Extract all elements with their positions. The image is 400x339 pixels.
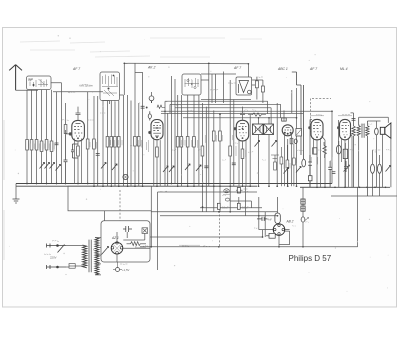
trimmer arrow P6 bbox=[112, 164, 117, 170]
wire V6 pin drops bbox=[342, 138, 349, 188]
resistor R21 bbox=[193, 137, 196, 148]
small oval between bbox=[225, 198, 229, 201]
resistor box R34 bbox=[308, 176, 312, 181]
resistor R24 bbox=[201, 146, 204, 156]
wire nest risers bbox=[102, 63, 280, 186]
wire right heater run bbox=[331, 195, 397, 197]
power transformer TR1 secondary bbox=[95, 238, 99, 275]
trimmer arrow P5 bbox=[101, 163, 106, 169]
wire detector output pair bbox=[292, 72, 304, 159]
wire dashed dial feed bbox=[219, 211, 221, 247]
label 145 ohm bbox=[135, 247, 146, 249]
wire speaker leads bbox=[383, 134, 391, 187]
trimmer arrow P8 bbox=[169, 166, 174, 172]
dial cord dashed bbox=[119, 190, 121, 221]
svg-text:AZ 1: AZ 1 bbox=[111, 236, 119, 240]
tube V7 AZ1 (rectifier, socket view) bbox=[111, 242, 123, 255]
wire V4 nets bbox=[284, 88, 297, 186]
OT core bbox=[362, 124, 364, 138]
trimmer arrow P7 bbox=[163, 166, 168, 172]
electrolytic capsule bbox=[275, 213, 280, 224]
capacitor C19 bbox=[308, 155, 312, 187]
trimmer arrow P13 bbox=[284, 168, 289, 174]
wire V1 top cap bbox=[76, 107, 81, 120]
trimmer arrow P3 bbox=[50, 163, 55, 169]
wire L2 feeders right bbox=[120, 95, 128, 186]
capacitor C10 bbox=[328, 161, 332, 187]
svg-text:AK 2: AK 2 bbox=[147, 66, 155, 70]
value labels column 1 (rotated squiggles) bbox=[29, 141, 54, 150]
coil L2 inner parts bbox=[102, 75, 118, 97]
band filter box L3 bbox=[182, 74, 201, 95]
fuse F1 bbox=[69, 264, 75, 269]
junction dots bbox=[26, 183, 28, 185]
resistor capsule R32 bbox=[302, 159, 306, 167]
trimmer arrow P10 bbox=[196, 165, 201, 171]
choke L6 bbox=[142, 228, 148, 234]
output transformer OT primary coil bbox=[357, 117, 360, 187]
wire mid distribution bus nest bbox=[161, 100, 332, 118]
dial lamp bbox=[123, 174, 128, 179]
dial assembly box bbox=[68, 186, 151, 211]
resistor R12 bbox=[110, 137, 113, 148]
wire screen feeders right of V1 bbox=[88, 92, 98, 186]
volume pot box bbox=[296, 129, 302, 137]
capacitor C2 bbox=[64, 135, 68, 184]
value labels V3 bbox=[236, 146, 246, 157]
resistor R28 bbox=[261, 86, 264, 92]
grid resistor rect R38 bbox=[343, 149, 347, 158]
resistor R16 bbox=[137, 137, 140, 147]
trimmer arrow P12 bbox=[272, 141, 277, 147]
grid dot V1 bbox=[69, 133, 72, 136]
lamp symbol bbox=[301, 217, 305, 222]
wire trimmer stems bbox=[150, 101, 152, 121]
zigzag resistor R37 (145 ohm) bbox=[127, 242, 147, 246]
value label marks (illegible scan text) bbox=[29, 144, 31, 150]
wire bus link right bbox=[300, 110, 332, 187]
selector arrow bbox=[102, 247, 109, 255]
arrow on lamp bbox=[305, 218, 309, 221]
transformer core bbox=[89, 240, 91, 273]
svg-text:BgF: BgF bbox=[28, 78, 33, 82]
resistor R3 bbox=[35, 140, 38, 151]
capacitor C13 (filter) bbox=[123, 226, 132, 232]
wire ground lead bbox=[15, 184, 17, 200]
tone cap + arrow bbox=[344, 161, 350, 172]
resistor R23 bbox=[219, 131, 222, 141]
wire R38 stems bbox=[344, 143, 346, 187]
trimmer arrow P15 bbox=[386, 166, 391, 172]
wire antenna lead bbox=[16, 89, 38, 91]
resistor R10 bbox=[93, 139, 96, 149]
wire osc verticals bbox=[203, 80, 234, 186]
grid dot V3 bbox=[234, 128, 236, 130]
resistor box R33 bbox=[313, 148, 317, 154]
svg-text:4nF: 4nF bbox=[268, 217, 273, 221]
wire heater run left bbox=[157, 211, 159, 270]
capacitor C7 bbox=[232, 163, 236, 165]
pilot lamp bbox=[223, 189, 230, 195]
svg-text:ABC 1: ABC 1 bbox=[277, 67, 288, 71]
wire top HT bus bbox=[124, 63, 248, 103]
capacitor C1 bbox=[55, 143, 59, 145]
wire V1 cathode tail bbox=[77, 141, 79, 184]
wire V3 top cap bbox=[240, 107, 245, 120]
wire V8 nets bbox=[278, 197, 290, 247]
wire V1 grid stub bbox=[66, 130, 71, 134]
svg-text:0,1uF: 0,1uF bbox=[242, 206, 249, 210]
svg-text:AB 2: AB 2 bbox=[286, 220, 294, 224]
wire verticals under L2 bbox=[103, 101, 119, 187]
resistor R4 bbox=[40, 141, 43, 152]
value labels column 3 bbox=[136, 138, 195, 145]
speaker bbox=[380, 123, 391, 138]
detector parts cluster bbox=[271, 144, 295, 186]
tube V5 AF7 (AF amp) bbox=[311, 119, 323, 139]
wire mains pigtails bbox=[47, 244, 51, 270]
tone box bbox=[266, 233, 275, 238]
electrolytic blob bbox=[236, 188, 248, 194]
tube V8 AB2 (socket view) bbox=[273, 224, 285, 236]
resistor R15 bbox=[134, 137, 137, 147]
wire osc net bbox=[252, 77, 263, 103]
coil box L1 (input band filter) bbox=[27, 76, 52, 90]
wire V3 pin drops bbox=[239, 139, 246, 186]
electrolytic capacitor C17 bbox=[301, 199, 305, 211]
wire power box stems bbox=[105, 211, 145, 242]
resistor R6 bbox=[50, 141, 53, 152]
grid dot V6 bbox=[337, 127, 339, 129]
resistor R9 bbox=[86, 139, 89, 149]
coil box L2 (oscillator/tuning unit) bbox=[100, 72, 120, 101]
resistor R19 bbox=[180, 137, 183, 148]
capacitor C4 bbox=[96, 154, 100, 156]
capacitor C3 bbox=[71, 144, 78, 158]
field coil capsule bbox=[375, 128, 379, 135]
wire bus: verticals under L1 bbox=[27, 90, 52, 184]
trimmer oval 2 bbox=[148, 114, 151, 119]
grid dot V5 bbox=[309, 127, 311, 129]
wire V6 nets bbox=[339, 120, 353, 187]
resistor R11 bbox=[106, 137, 109, 148]
resistor capsule R40 bbox=[378, 164, 382, 173]
label osc value (left of V2) bbox=[147, 140, 149, 152]
svg-text:0,1uF: 0,1uF bbox=[222, 206, 229, 210]
wire OT top runs bbox=[351, 113, 389, 123]
trimmer arrow P2 bbox=[45, 163, 50, 169]
voltage adjust dot bbox=[116, 268, 120, 272]
wire L3 to osc box bbox=[201, 63, 223, 186]
power transformer TR1 primary bbox=[83, 245, 87, 268]
resistor R17 (V2 cathode) bbox=[156, 147, 159, 157]
wire transformer taps bbox=[66, 238, 101, 275]
resistor R26 (V3 cathode) bbox=[241, 149, 244, 159]
value text above V5 bbox=[310, 115, 352, 117]
svg-text:ML 4: ML 4 bbox=[340, 67, 348, 71]
trimmer arrow P11 bbox=[255, 141, 260, 147]
wire V2 tail bbox=[156, 140, 158, 187]
main earth bus bbox=[16, 184, 390, 188]
capacitor C15 bbox=[237, 203, 240, 209]
resistor R22 bbox=[212, 131, 215, 141]
resistor R13 bbox=[114, 137, 117, 148]
mains switch bbox=[50, 244, 66, 270]
antenna bbox=[9, 65, 22, 91]
resistor capsule R39 bbox=[371, 164, 375, 173]
wire bottom-right loop bbox=[303, 187, 358, 247]
resistor R27 (osc coupling) bbox=[255, 81, 258, 88]
svg-text:AF 7: AF 7 bbox=[309, 67, 317, 71]
wire V1 pin drops bbox=[75, 139, 82, 184]
resistor R2 bbox=[30, 140, 33, 151]
wire V2 pin drops bbox=[154, 138, 160, 187]
heater wiring row bbox=[200, 197, 262, 208]
resistor R8 (V1 cathode) bbox=[77, 146, 80, 156]
coupling capsule C11 bbox=[336, 145, 341, 154]
resistor R5 bbox=[45, 140, 48, 151]
IF transformer can A bbox=[253, 124, 264, 135]
tube V1 AF7 bbox=[72, 120, 85, 141]
trimmer cap T bbox=[149, 96, 154, 101]
IF transformer can B bbox=[264, 124, 274, 135]
tube V4 ABC1 (round) bbox=[282, 125, 293, 136]
resistor R14 bbox=[117, 137, 120, 148]
capacitor C6 bbox=[204, 166, 208, 168]
zigzag resistor R31 (V5 cathode, vertical) bbox=[323, 142, 327, 158]
trimmer arrow P4 bbox=[56, 165, 61, 171]
svg-text:Philips D 57: Philips D 57 bbox=[289, 254, 332, 263]
svg-text:AF 7: AF 7 bbox=[233, 66, 241, 70]
padder zigzag bbox=[157, 105, 165, 109]
value labels column 2 bbox=[89, 141, 95, 148]
svg-text:+1,5V: +1,5V bbox=[122, 268, 130, 272]
trimmer arrow P9 bbox=[185, 164, 190, 170]
trimmer arrow P14 bbox=[296, 167, 301, 173]
wire V4 pin drops bbox=[285, 134, 292, 186]
junction dot bbox=[146, 107, 148, 109]
wire verticals right of V2 bbox=[178, 95, 199, 186]
wire heater long run bbox=[140, 246, 303, 248]
tube V2 AK2 (mixer) bbox=[151, 120, 163, 140]
tube V3 AF7 (IF amp) bbox=[236, 120, 248, 141]
resistor R18 bbox=[176, 137, 179, 148]
svg-text:AF 7: AF 7 bbox=[72, 67, 80, 71]
wire IF can taps bbox=[250, 103, 277, 186]
L3 inner parts bbox=[185, 78, 200, 89]
grid cap C8 bbox=[282, 118, 287, 121]
trimmer arrow P1 bbox=[40, 163, 45, 169]
wire dashed AVC line bbox=[311, 99, 332, 133]
wire heater feeders bbox=[151, 192, 257, 247]
choke zigzag (V6 anode) bbox=[352, 113, 356, 187]
capacitor C16 bbox=[257, 217, 268, 221]
wire supply rails bbox=[151, 186, 277, 237]
resistor R25 bbox=[229, 146, 232, 156]
wire AZ1 anode out bbox=[117, 248, 150, 262]
coil L1 inner parts bbox=[29, 79, 48, 87]
resistor R30 (V4 anode) bbox=[290, 138, 293, 144]
label nur bei text bbox=[179, 244, 200, 246]
resistor R7 (T1 screen) bbox=[64, 125, 67, 134]
wire HT distribution bbox=[150, 197, 278, 237]
wire field coil stems bbox=[375, 121, 377, 187]
capacitor C18 (osc grid) bbox=[141, 106, 145, 108]
output transformer OT secondary coil bbox=[366, 121, 369, 196]
wire C11 stems bbox=[338, 141, 340, 187]
oscillator padder box L4 bbox=[236, 77, 252, 95]
capacitor C20 bbox=[332, 172, 336, 174]
wire R39/R40 stems bbox=[373, 150, 380, 196]
tube V6 ML4 (output) bbox=[340, 119, 351, 139]
svg-text:Abst.Spulen: Abst.Spulen bbox=[78, 84, 94, 88]
resistor R20 bbox=[186, 137, 189, 148]
capacitor C9 bbox=[294, 139, 297, 144]
wire stage1 couplers bbox=[51, 83, 103, 184]
scan ghost artifacts bbox=[20, 38, 262, 57]
ground bbox=[13, 199, 20, 203]
grid dot V2 bbox=[149, 131, 151, 133]
svg-text:220V: 220V bbox=[50, 256, 57, 260]
L4 variable capacitor vane bbox=[239, 81, 252, 94]
scan specks bbox=[139, 102, 140, 103]
wire V5 nets bbox=[310, 120, 325, 188]
wire V3 tail bbox=[242, 141, 244, 186]
capacitor C12 bbox=[352, 119, 356, 121]
wire V5 pin drops bbox=[314, 138, 321, 188]
capacitor C14 bbox=[217, 203, 220, 209]
zigzag resistor R29 above IF can bbox=[248, 113, 266, 117]
resistor R1 bbox=[26, 140, 29, 151]
power unit box (rounded) bbox=[101, 221, 150, 262]
